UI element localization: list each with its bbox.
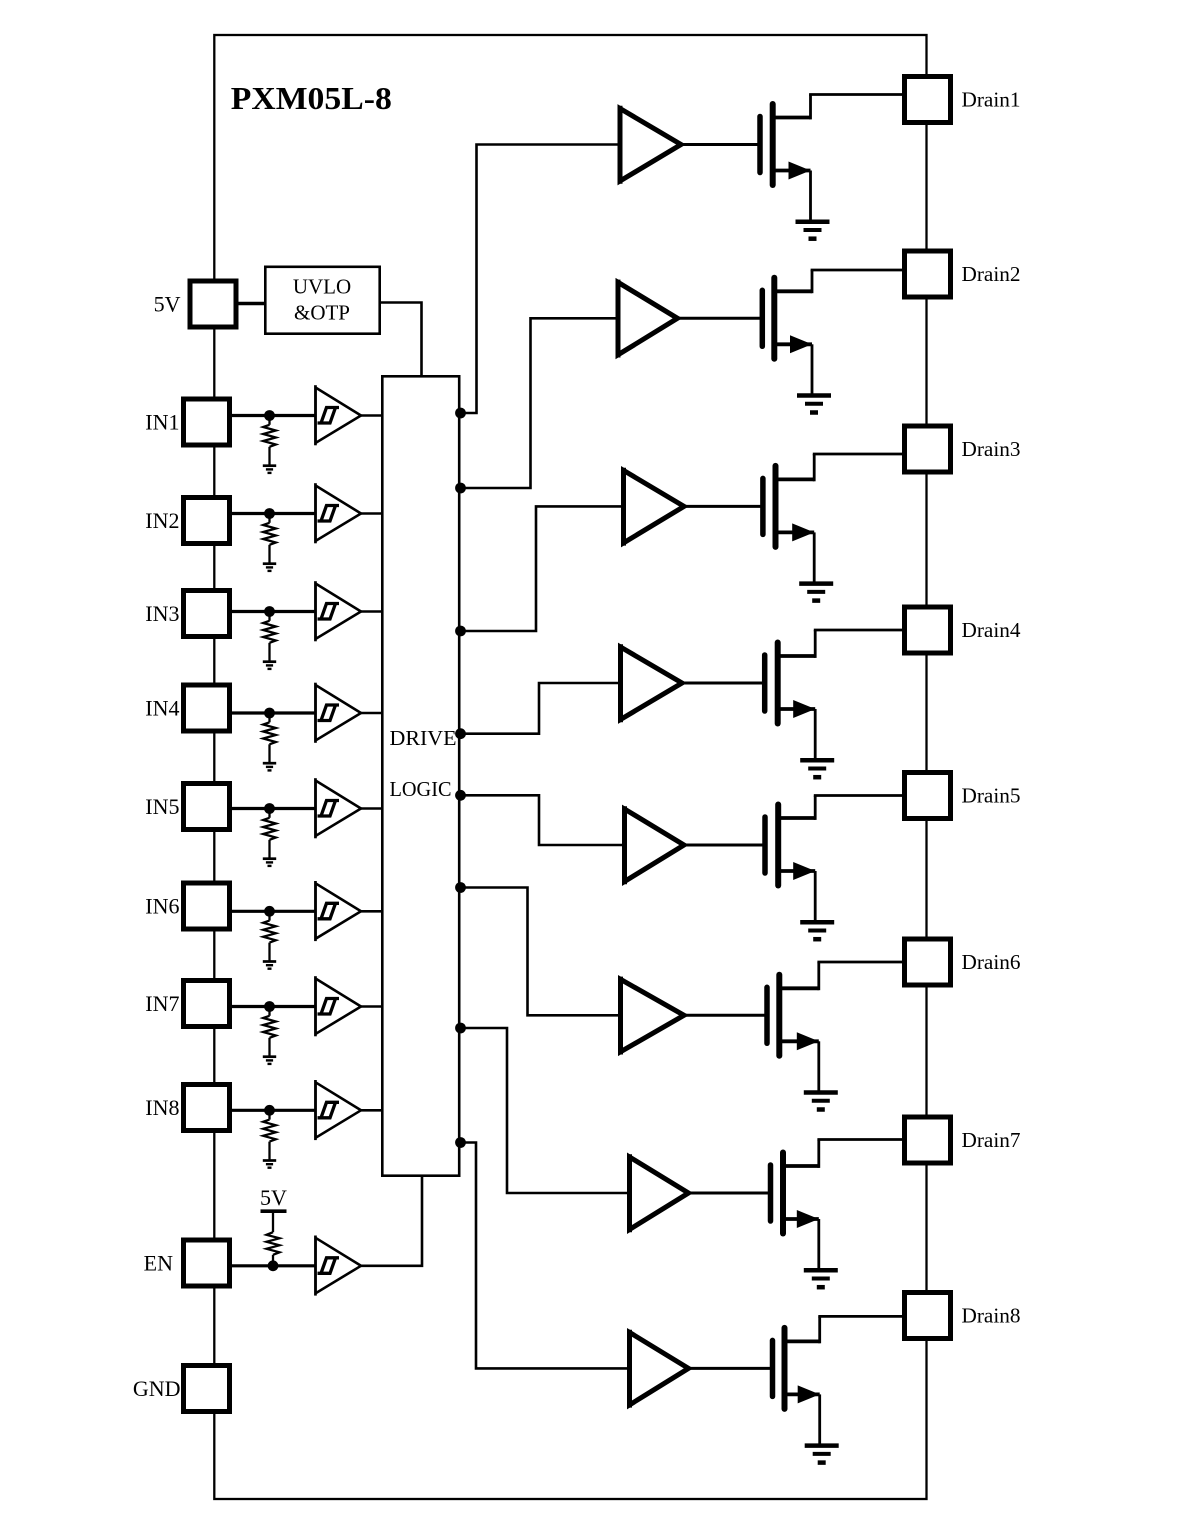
transistor Q7 channel bar <box>780 1153 786 1234</box>
svg-text:IN5: IN5 <box>145 794 179 819</box>
svg-text:IN1: IN1 <box>145 410 179 435</box>
wire IN1 pad to Schmitt buffer <box>231 414 317 417</box>
pin pad Drain5 <box>905 773 951 819</box>
wire source Q7 with arrow <box>783 1210 819 1270</box>
svg-text:Drain6: Drain6 <box>962 950 1021 974</box>
wire drain Q8 to Drain8 pad <box>785 1316 906 1343</box>
svg-text:&OTP: &OTP <box>294 301 350 325</box>
label IN7 <box>145 991 179 1016</box>
svg-text:GND: GND <box>133 1376 181 1401</box>
ground (source Q3) <box>799 584 833 601</box>
title PXM05L-8 <box>231 80 392 116</box>
transistor Q4 gate bar <box>762 655 768 711</box>
wire driver 2 output to gate Q2 <box>678 317 761 320</box>
wire source Q1 with arrow <box>773 162 811 222</box>
wire IN7 pad to Schmitt buffer <box>231 1005 317 1008</box>
wire IN4 pad to Schmitt buffer <box>231 711 317 714</box>
svg-text:IN6: IN6 <box>145 894 179 919</box>
pin pad GND <box>184 1366 230 1412</box>
wire driver 7 output to gate Q7 <box>689 1192 769 1195</box>
ground (source Q8) <box>805 1446 839 1463</box>
pin pad Drain8 <box>905 1293 951 1339</box>
label Drain1 <box>962 87 1021 111</box>
driver buffer U2 <box>618 280 678 358</box>
Schmitt trigger buffer IN3 <box>316 581 362 641</box>
label IN8 <box>145 1095 179 1120</box>
pin pad Drain7 <box>905 1117 951 1163</box>
svg-text:5V: 5V <box>260 1185 287 1210</box>
node output dot channel 6 (DRIVE LOGIC edge) <box>455 882 466 893</box>
label Drain4 <box>962 618 1021 642</box>
pin pad IN2 <box>184 498 230 544</box>
Schmitt trigger buffer IN5 <box>316 778 362 838</box>
pin pad IN8 <box>184 1085 230 1131</box>
wire Schmitt IN2 output to DRIVE LOGIC <box>361 512 382 515</box>
wire drain Q7 to Drain7 pad <box>783 1140 905 1168</box>
ground (source Q7) <box>804 1270 838 1287</box>
driver buffer U8 <box>630 1330 689 1408</box>
label Drain3 <box>962 437 1021 461</box>
driver buffer U1 <box>620 106 681 184</box>
ground (source Q2) <box>797 396 831 413</box>
resistor pull-down R1 (IN1) <box>263 419 276 466</box>
svg-text:DRIVE: DRIVE <box>390 726 457 750</box>
transistor Q8 channel bar <box>782 1328 788 1409</box>
label IN4 <box>145 696 179 721</box>
wire Schmitt IN6 output to DRIVE LOGIC <box>361 910 382 913</box>
driver buffer U4 <box>621 644 683 722</box>
resistor pull-down R3 (IN3) <box>263 615 276 662</box>
label IN5 <box>145 794 179 819</box>
wire Schmitt IN8 output to DRIVE LOGIC <box>361 1109 382 1112</box>
resistor pull-down R8 (IN8) <box>263 1113 276 1160</box>
pin pad Drain2 <box>905 251 951 297</box>
Schmitt trigger buffer IN2 <box>316 483 362 543</box>
Schmitt trigger buffer IN7 <box>316 976 362 1036</box>
node output dot channel 7 (DRIVE LOGIC edge) <box>455 1023 466 1034</box>
svg-text:UVLO: UVLO <box>293 275 351 299</box>
node junction dot IN2 <box>264 508 275 519</box>
wire Schmitt IN7 output to DRIVE LOGIC <box>361 1005 382 1008</box>
label EN <box>144 1251 173 1276</box>
wire IN2 pad to Schmitt buffer <box>231 512 317 515</box>
label Drain8 <box>962 1303 1021 1327</box>
node output dot channel 1 (DRIVE LOGIC edge) <box>455 408 466 419</box>
transistor Q2 gate bar <box>760 290 766 346</box>
wire Schmitt IN1 output to DRIVE LOGIC <box>361 414 382 417</box>
resistor pull-down R6 (IN6) <box>263 914 276 961</box>
pin pad IN4 <box>184 685 230 731</box>
wire drain Q5 to Drain5 pad <box>778 796 905 820</box>
label Drain7 <box>962 1128 1021 1152</box>
node output dot channel 8 (DRIVE LOGIC edge) <box>455 1137 466 1148</box>
chip boundary (outer border of PXM05L-8) <box>214 35 926 1499</box>
svg-text:Drain8: Drain8 <box>962 1303 1021 1327</box>
wire Schmitt IN3 output to DRIVE LOGIC <box>361 610 382 613</box>
wire Schmitt IN5 output to DRIVE LOGIC <box>361 807 382 810</box>
label 5V <box>154 292 181 317</box>
svg-text:5V: 5V <box>154 292 181 317</box>
transistor Q3 channel bar <box>773 466 779 547</box>
resistor pull-down R7 (IN7) <box>263 1010 276 1057</box>
wire source Q8 with arrow <box>785 1385 820 1445</box>
wire IN5 pad to Schmitt buffer <box>231 807 317 810</box>
label Drain2 <box>962 262 1021 286</box>
svg-text:Drain7: Drain7 <box>962 1128 1021 1152</box>
Schmitt trigger buffer IN8 <box>316 1080 362 1140</box>
pin pad IN5 <box>184 784 230 830</box>
label IN2 <box>145 508 179 533</box>
label IN6 <box>145 894 179 919</box>
wire driver 5 output to gate Q5 <box>684 844 763 847</box>
ground (under R7) <box>263 1057 276 1064</box>
label IN1 <box>145 410 179 435</box>
Schmitt trigger buffer IN1 <box>316 385 362 445</box>
wire driver 4 output to gate Q4 <box>682 682 763 685</box>
svg-text:Drain5: Drain5 <box>962 783 1021 807</box>
driver buffer U7 <box>630 1154 689 1232</box>
wire DRIVE LOGIC to driver 4 <box>461 683 621 734</box>
ground (under R2) <box>263 564 276 571</box>
wire drain Q2 to Drain2 pad <box>774 270 905 293</box>
ground (under R8) <box>263 1161 276 1168</box>
svg-text:IN3: IN3 <box>145 601 179 626</box>
svg-text:LOGIC: LOGIC <box>390 777 452 801</box>
wire 5V pad to UVLO box <box>236 302 265 305</box>
transistor Q1 gate bar <box>757 117 763 173</box>
svg-text:Drain4: Drain4 <box>962 618 1021 642</box>
pin pad IN7 <box>184 981 230 1027</box>
ground (source Q6) <box>804 1093 838 1110</box>
driver buffer U3 <box>624 468 685 546</box>
pin pad IN1 <box>184 399 230 445</box>
wire IN3 pad to Schmitt buffer <box>231 610 317 613</box>
block UVLO &amp; OTP <box>265 267 379 334</box>
wire driver 3 output to gate Q3 <box>684 505 761 508</box>
ground (under R4) <box>263 763 276 770</box>
pin pad 5V <box>190 281 236 327</box>
node output dot channel 4 (DRIVE LOGIC edge) <box>455 728 466 739</box>
transistor Q2 channel bar <box>771 278 777 359</box>
transistor Q5 gate bar <box>762 817 768 873</box>
pin pad Drain4 <box>905 607 951 653</box>
wire source Q5 with arrow <box>778 862 815 922</box>
wire driver 6 output to gate Q6 <box>684 1014 765 1017</box>
wire driver 1 output to gate Q1 <box>681 143 758 146</box>
ground (under R3) <box>263 662 276 669</box>
svg-text:Drain1: Drain1 <box>962 87 1021 111</box>
pin pad EN <box>184 1240 230 1286</box>
svg-text:IN8: IN8 <box>145 1095 179 1120</box>
transistor Q3 gate bar <box>760 478 766 534</box>
node junction dot IN3 <box>264 606 275 617</box>
label 5V (EN pull-up rail) <box>260 1185 287 1210</box>
pin pad Drain3 <box>905 426 951 472</box>
svg-text:PXM05L-8: PXM05L-8 <box>231 80 392 116</box>
wire UVLO output to DRIVE LOGIC top <box>380 303 422 378</box>
power rail 5V bar (EN pull-up) <box>261 1209 287 1213</box>
ground (under R5) <box>263 859 276 866</box>
wire Schmitt IN4 output to DRIVE LOGIC <box>361 712 382 715</box>
node output dot channel 3 (DRIVE LOGIC edge) <box>455 626 466 637</box>
wire DRIVE LOGIC to driver 6 <box>461 888 621 1016</box>
label GND <box>133 1376 181 1401</box>
wire IN6 pad to Schmitt buffer <box>231 910 317 913</box>
node junction dot IN5 <box>264 803 275 814</box>
ground (under R1) <box>263 466 276 473</box>
wire source Q2 with arrow <box>774 335 812 395</box>
ground (under R6) <box>263 962 276 969</box>
wire source Q4 with arrow <box>778 700 816 760</box>
resistor pull-down R4 (IN4) <box>263 716 276 763</box>
transistor Q7 gate bar <box>768 1165 774 1221</box>
wire DRIVE LOGIC to driver 3 <box>461 506 624 631</box>
wire source Q6 with arrow <box>779 1032 819 1092</box>
pin pad Drain1 <box>905 77 951 123</box>
wire drain Q6 to Drain6 pad <box>779 962 905 990</box>
node junction dot IN8 <box>264 1105 275 1116</box>
wire DRIVE LOGIC to driver 8 <box>461 1143 630 1369</box>
transistor Q5 channel bar <box>775 805 781 886</box>
wire source Q3 with arrow <box>776 523 815 583</box>
svg-text:IN4: IN4 <box>145 696 179 721</box>
pin pad IN6 <box>184 883 230 929</box>
node junction dot EN <box>268 1260 279 1271</box>
wire Schmitt EN output to DRIVE LOGIC bottom <box>361 1176 422 1266</box>
driver buffer U5 <box>625 806 685 884</box>
resistor pull-up (EN to 5V) <box>267 1213 280 1262</box>
resistor pull-down R2 (IN2) <box>263 517 276 564</box>
resistor pull-down R5 (IN5) <box>263 812 276 859</box>
wire drain Q3 to Drain3 pad <box>776 454 906 481</box>
wire DRIVE LOGIC to driver 7 <box>461 1028 630 1193</box>
wire DRIVE LOGIC to driver 2 <box>461 318 619 488</box>
wire driver 8 output to gate Q8 <box>689 1367 771 1370</box>
svg-text:Drain2: Drain2 <box>962 262 1021 286</box>
ground (source Q1) <box>796 222 830 239</box>
node junction dot IN4 <box>264 708 275 719</box>
transistor Q1 channel bar <box>770 104 776 185</box>
node output dot channel 2 (DRIVE LOGIC edge) <box>455 483 466 494</box>
pin pad IN3 <box>184 591 230 637</box>
wire drain Q4 to Drain4 pad <box>778 630 905 658</box>
driver buffer U6 <box>621 977 685 1055</box>
label Drain5 <box>962 783 1021 807</box>
Schmitt trigger buffer IN6 <box>316 881 362 941</box>
Schmitt trigger buffer EN <box>316 1236 362 1296</box>
block DRIVE LOGIC <box>382 376 459 1175</box>
pin pad Drain6 <box>905 939 951 985</box>
node junction dot IN6 <box>264 906 275 917</box>
wire EN pad to Schmitt buffer <box>231 1264 317 1267</box>
wire IN8 pad to Schmitt buffer <box>231 1109 317 1112</box>
transistor Q8 gate bar <box>770 1340 776 1396</box>
wire drain Q1 to Drain1 pad <box>773 95 905 120</box>
ground (source Q4) <box>800 760 834 777</box>
transistor Q4 channel bar <box>775 643 781 724</box>
node output dot channel 5 (DRIVE LOGIC edge) <box>455 790 466 801</box>
wire DRIVE LOGIC to driver 1 <box>461 145 621 414</box>
node junction dot IN7 <box>264 1001 275 1012</box>
label IN3 <box>145 601 179 626</box>
label Drain6 <box>962 950 1021 974</box>
svg-text:IN2: IN2 <box>145 508 179 533</box>
node junction dot IN1 <box>264 410 275 421</box>
svg-text:Drain3: Drain3 <box>962 437 1021 461</box>
transistor Q6 channel bar <box>776 975 782 1056</box>
ground (source Q5) <box>800 922 834 939</box>
wire DRIVE LOGIC to driver 5 <box>461 795 625 845</box>
svg-text:EN: EN <box>144 1251 173 1276</box>
svg-text:IN7: IN7 <box>145 991 179 1016</box>
transistor Q6 gate bar <box>764 987 770 1043</box>
Schmitt trigger buffer IN4 <box>316 683 362 743</box>
